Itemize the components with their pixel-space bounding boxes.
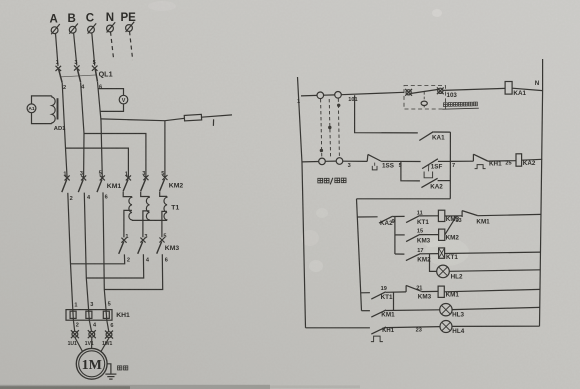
left rail line 1: [298, 77, 306, 328]
thermal relay KH1 box: [66, 310, 112, 321]
wire KM2 pole3 to T1: [160, 192, 167, 197]
wire KM2 coil to node 13: [445, 216, 457, 235]
wire HL2 to N rail: [449, 270, 540, 272]
wire KM1 contact to HL3: [386, 309, 440, 312]
contactor contact KM3 (NO, 15): [406, 234, 420, 241]
node 7 vertical: [449, 132, 451, 199]
wire A QL1 to KM1: [62, 83, 67, 178]
relay coil KA2: [516, 154, 522, 166]
contactor KM2 pole 3: [160, 175, 168, 191]
selector dashed link left: [321, 99, 322, 158]
T1 tap 3 to KM3: [162, 211, 167, 237]
block left rail: [357, 199, 362, 311]
breaker QL1 pole 1: [56, 66, 63, 83]
wire PE dashed: [130, 31, 133, 60]
paper grain: [0, 0, 1, 1]
branch to HL2: [430, 254, 437, 272]
lamp HL2: [437, 265, 450, 278]
rung 17 stub: [395, 253, 405, 255]
branch vertical 9 down: [394, 217, 396, 255]
T1 star bus: [132, 219, 167, 221]
node 3 wire to selector bottom: [302, 161, 319, 163]
pushbutton 1SS (NC stop): [367, 154, 381, 170]
transformer T1 winding 2: [146, 197, 149, 221]
wire HL3 to N rail: [452, 307, 540, 309]
relay contact KA2 (rung 9): [379, 216, 393, 223]
phase terminal C: [88, 23, 97, 33]
timer contact KT1 (NO, 11): [406, 216, 420, 223]
phase terminal B: [69, 24, 78, 34]
contactor coil KM1: [438, 286, 444, 297]
wire KA1 contact to node7: [433, 131, 450, 133]
transformer T1 winding 3: [164, 196, 167, 220]
wire between selector tops: [324, 94, 335, 96]
block top edge wire: [357, 198, 451, 200]
float switch terminal right: [437, 87, 444, 94]
photo shadow bottom edge: [0, 385, 270, 389]
wire B to QL1: [74, 33, 77, 66]
contactor coil KM3: [438, 210, 444, 221]
wire KH1 to terminal 2: [89, 320, 91, 331]
motor 1M: [76, 348, 107, 379]
branch B to KM2: [84, 134, 146, 178]
wire KM1 pole1 down: [68, 193, 73, 310]
float ball: [421, 101, 427, 107]
wire 103 to KA1 coil: [443, 88, 505, 90]
phase terminal PE: [126, 22, 135, 32]
contactor KM2 pole 2: [141, 175, 149, 191]
timer contact KT1 (NO, 19): [371, 292, 385, 299]
branch to KA2 hold contact: [401, 162, 420, 181]
contactor KM1 pole 2: [78, 175, 86, 192]
wire KH1 to terminal 1: [73, 320, 74, 331]
wire 21 to KM1 coil: [422, 290, 438, 292]
contactor KM3 pole 2: [138, 238, 146, 254]
KH1 element 1: [70, 310, 76, 321]
thermal contact KH1 (NC): [473, 154, 487, 168]
rung 15 stub: [395, 234, 405, 236]
lamp HL3: [440, 304, 452, 316]
contactor contact KM1 (NC, 13): [462, 211, 478, 217]
voltmeter V: [119, 95, 128, 104]
wire 9 to KT1 contact: [393, 215, 405, 217]
wire 25: [488, 160, 516, 162]
terminal 1W1: [105, 331, 113, 339]
ammeter A1: [27, 104, 36, 113]
wire 17 to KT1 coil: [421, 253, 439, 255]
wire KM1 contact to N rail: [478, 214, 541, 215]
wire 11 to KM3 coil: [420, 215, 439, 217]
wire KM2 pole1 to T1: [123, 192, 132, 197]
selector caption (Chinese manual/auto): [318, 178, 346, 185]
terminal 1U1: [71, 330, 79, 338]
paper stain light patches: [425, 238, 469, 266]
ground symbol: [105, 374, 116, 379]
float switch blade: [411, 90, 437, 94]
fuse FU: [184, 114, 201, 121]
phase terminal N: [107, 22, 116, 32]
wire C QL1 to KM1: [98, 82, 103, 178]
wire motor to ground: [107, 364, 111, 374]
QL1 linkage bar: [60, 75, 97, 77]
right rail N: [540, 59, 543, 326]
wire KA2 contact to node7: [438, 180, 451, 182]
transformer T1 winding 1: [129, 197, 132, 221]
T1 tap 1 to KM3: [124, 210, 132, 237]
AD1 core bar: [57, 98, 59, 119]
selector position dot bottom left: [320, 149, 323, 152]
wire C to QL1: [92, 33, 95, 66]
wire 19 to KM3 contact: [386, 291, 406, 293]
wire KM1 pole3 down: [103, 192, 106, 309]
contactor contact KM2 (NO, 17): [406, 253, 421, 260]
rung 19 wire: [361, 292, 370, 294]
rung KM1 hold wire: [362, 310, 370, 312]
timer coil KT1: [439, 248, 445, 258]
wire KM1 coil to N rail: [444, 289, 540, 291]
selector SA top contact right: [335, 92, 342, 99]
contactor KM1 pole 3: [97, 175, 105, 192]
wire KM3 pole1 out: [71, 254, 125, 263]
relay coil KA1: [505, 82, 512, 95]
node 1 wire to selector: [301, 94, 317, 97]
control feed wire: [101, 118, 184, 120]
rung KH1 alarm wire: [306, 327, 370, 329]
contactor contact KM3 (NC, 21): [406, 285, 422, 292]
selector position dot top right: [337, 104, 340, 107]
relay contact KA2 (hold): [421, 178, 437, 187]
control feed tick: [212, 119, 214, 126]
wire between selector bottoms: [325, 160, 336, 162]
wire 15 to KM2 coil: [420, 234, 439, 236]
wire KM2 pole2 to T1: [141, 192, 150, 197]
label ground (jiedi): [118, 366, 128, 370]
wire HL4 to N rail: [452, 325, 540, 327]
contactor KM3 pole 3: [157, 238, 165, 254]
wire 13: [445, 215, 462, 217]
contactor KM3 pole 1: [119, 238, 127, 254]
pushbutton 1SF (NO start): [422, 159, 438, 178]
wire KM1 pole2 down: [84, 193, 88, 310]
wire KA2 coil to N rail: [522, 158, 543, 161]
contactor KM1 pole 1: [62, 175, 70, 192]
float control caption (Chinese): [443, 102, 479, 109]
wire terminal2 to motor: [91, 337, 93, 348]
wire 23 to HL4: [386, 327, 440, 328]
wire 5: [381, 160, 421, 162]
wire 3 to 1SS: [343, 160, 367, 162]
wire B QL1 to KM1: [81, 82, 84, 178]
wire 7: [438, 160, 450, 162]
ammeter A1 loop: [32, 96, 52, 104]
branch C to KM2: [164, 121, 166, 178]
wire KH1 to terminal 3: [107, 320, 109, 331]
branch 101 down: [355, 95, 418, 133]
lamp HL4: [440, 321, 452, 333]
wire KM3 pole3 out: [104, 254, 162, 289]
contactor KM2 pole 1: [123, 175, 131, 191]
breaker QL1 pole 2: [74, 65, 81, 82]
rung wire to KA2 contact: [357, 216, 377, 218]
breaker QL1 pole 3: [92, 66, 98, 82]
terminal 1V1: [88, 330, 96, 338]
wire KA1 coil to N rail: [512, 88, 542, 90]
KH1 element 2: [86, 310, 92, 321]
selector dashed link centre: [329, 99, 330, 157]
wire N dashed: [111, 32, 114, 59]
selector dashed link right: [338, 99, 339, 158]
selector SA bottom contact left: [319, 158, 326, 165]
wire terminal1 to motor: [75, 337, 83, 351]
voltmeter wires: [98, 89, 124, 96]
transformer AD1 winding: [52, 96, 55, 124]
selector SA top contact left: [317, 92, 324, 99]
phase terminal A: [51, 24, 60, 34]
contactor coil KM2: [439, 229, 445, 240]
float actuator link: [423, 92, 425, 101]
branch vertical 19 down: [393, 292, 395, 310]
KH1 element 3: [103, 310, 109, 321]
thermal contact KH1 (alarm): [371, 327, 386, 342]
float switch dashed box: [404, 86, 446, 110]
wire KM3 pole2 out: [86, 254, 143, 278]
wire A to QL1: [56, 33, 59, 66]
selector position dot centre: [328, 126, 331, 129]
wire KT1 coil to N rail: [445, 252, 541, 253]
contactor contact KM1 (NO hold): [371, 310, 386, 317]
wire node7 to KH1 contact: [450, 160, 473, 162]
T1 tap 2 to KM3: [143, 211, 150, 237]
wire 101: [341, 92, 404, 94]
relay contact KA1: [419, 132, 433, 141]
selector SA bottom contact right: [336, 158, 343, 165]
float switch terminal left: [405, 89, 412, 96]
branch A to KM2: [66, 148, 129, 178]
wire terminal3 to motor: [101, 338, 109, 352]
